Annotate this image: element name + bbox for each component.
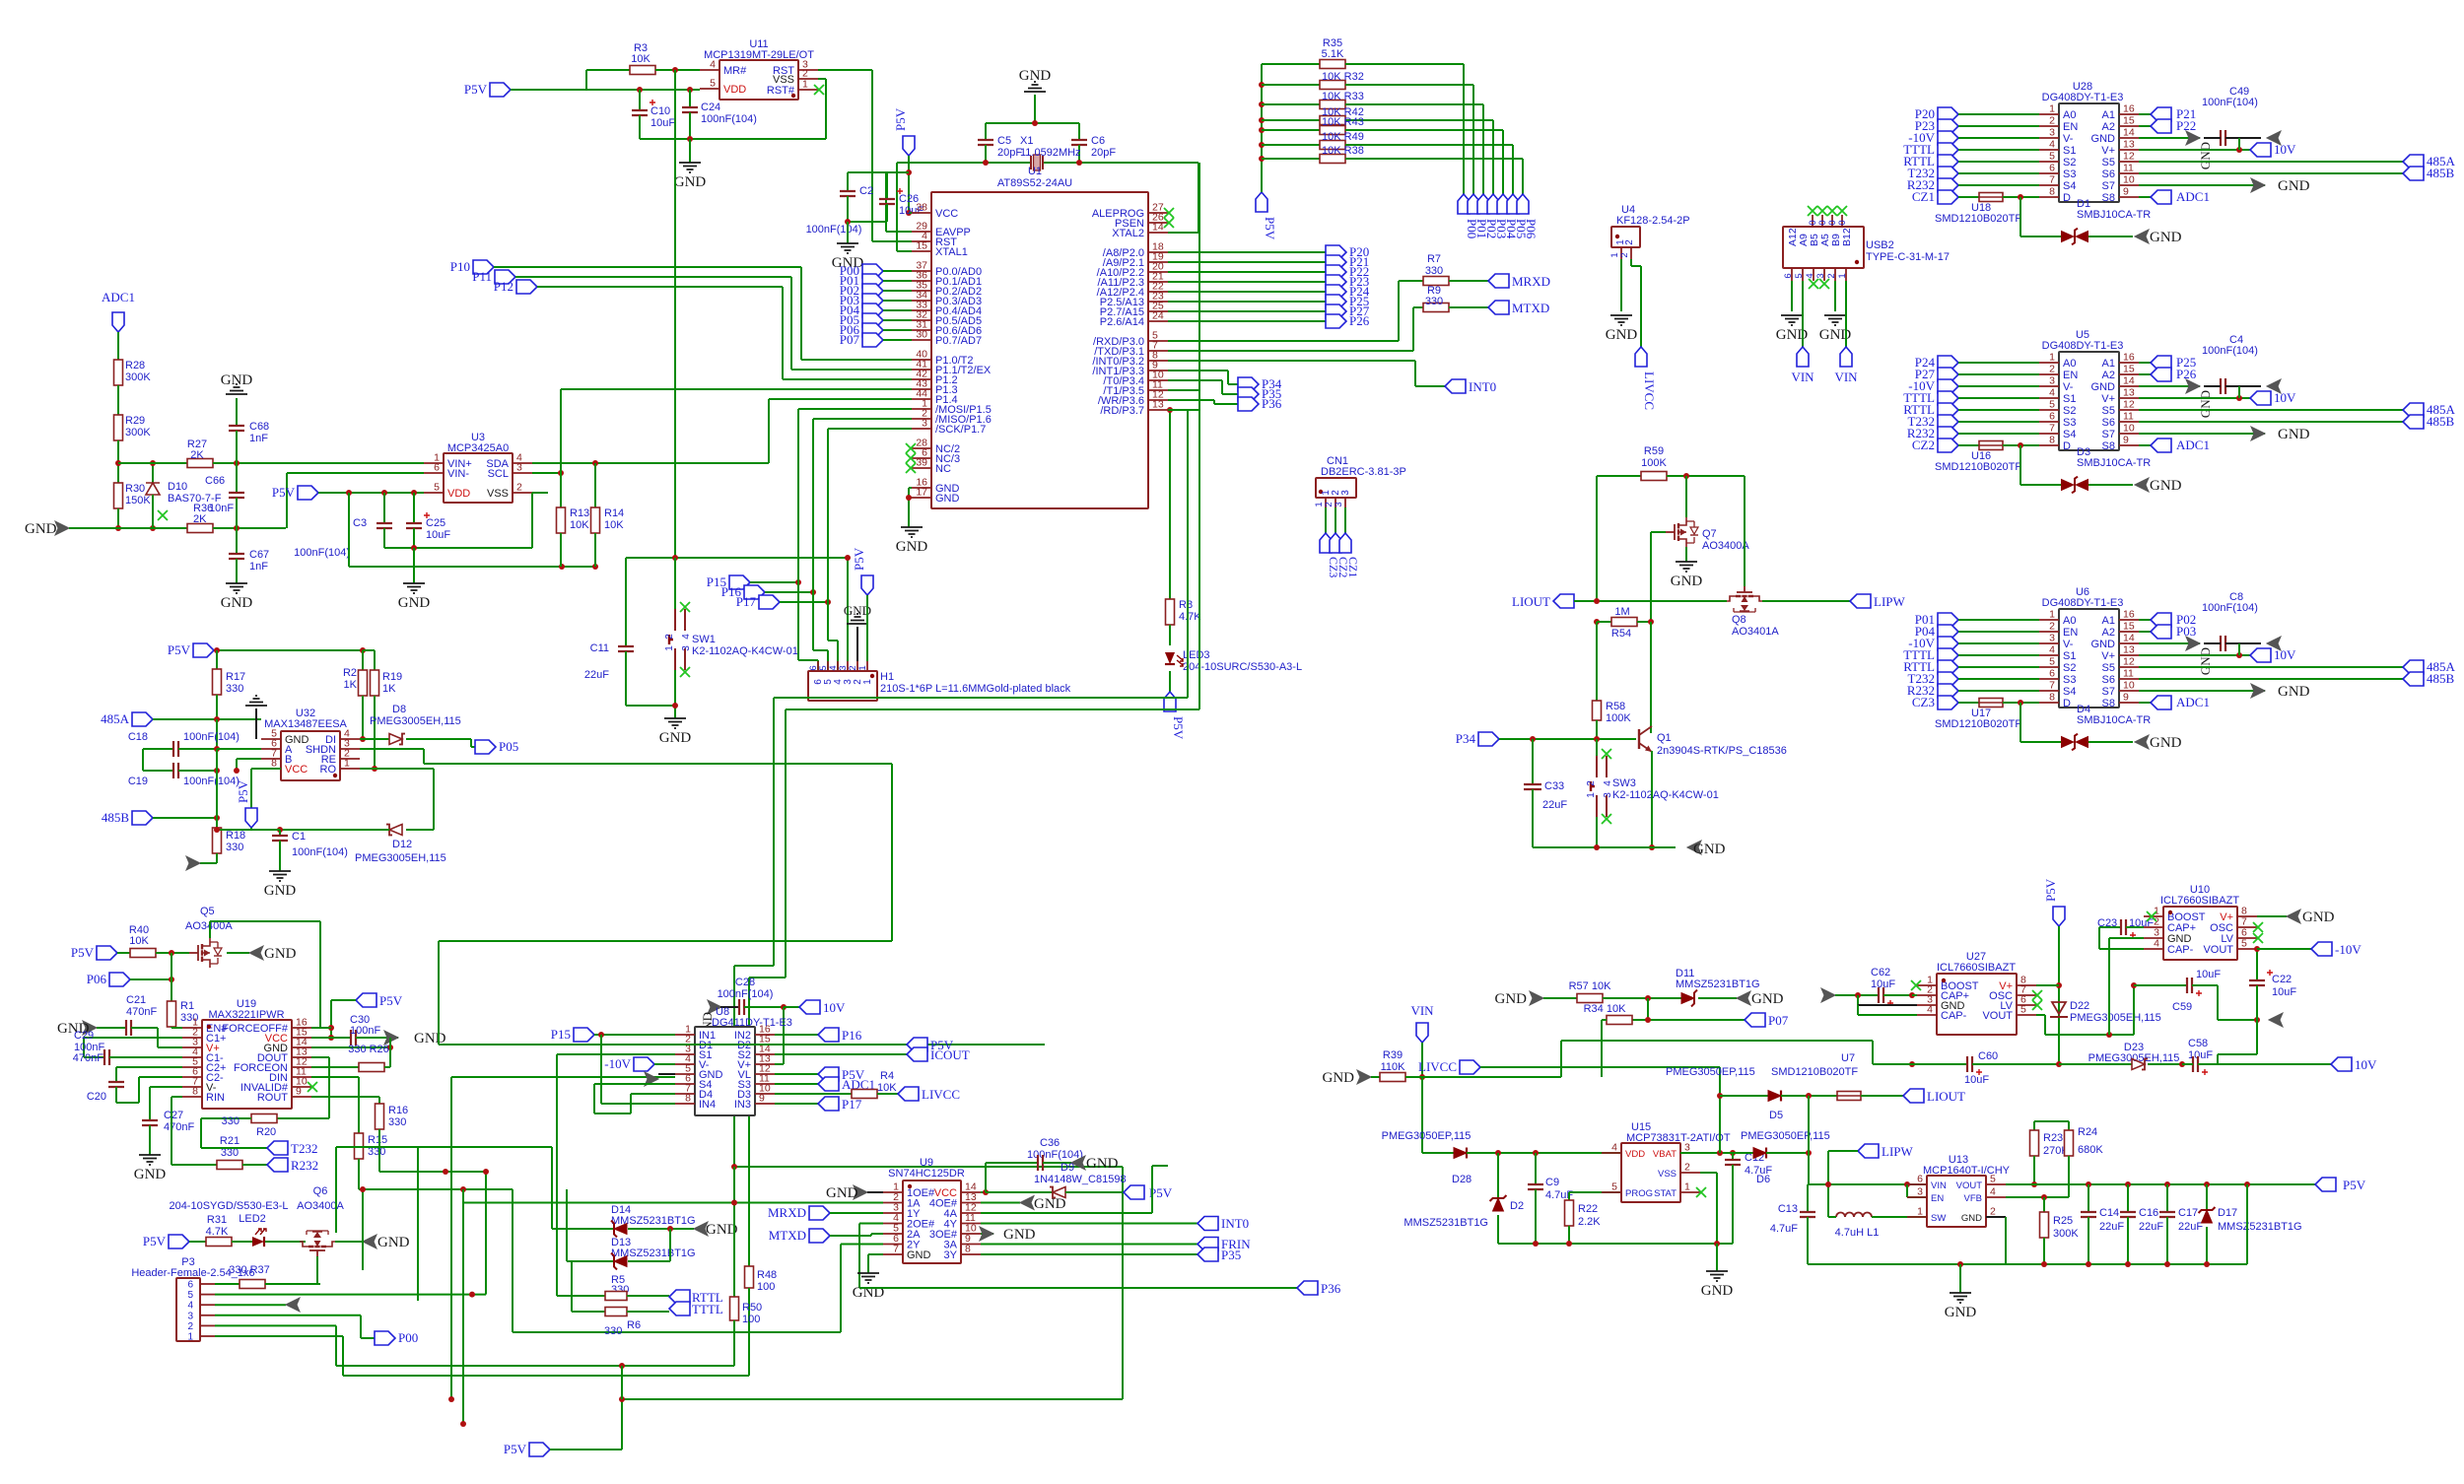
svg-text:S8: S8: [2102, 698, 2115, 709]
resistor R14: [594, 463, 596, 507]
wire trunk DIN row: [359, 1188, 513, 1190]
svg-text:VIN-: VIN-: [447, 468, 469, 480]
resistor R33: [1259, 101, 1265, 107]
svg-text:P5V: P5V: [236, 779, 250, 803]
wire P12 to P1.2: [537, 286, 783, 288]
wire P3 pin5: [215, 1294, 486, 1296]
svg-text:R14: R14: [604, 507, 624, 519]
port P15 left of U8: [574, 1028, 594, 1042]
svg-text:D2: D2: [1510, 1200, 1524, 1212]
wire trunk ROUT row: [379, 1171, 486, 1173]
wire VIN row boost: [1809, 1183, 1927, 1185]
port P16 right of U8: [818, 1028, 839, 1042]
svg-text:5: 5: [2049, 399, 2055, 411]
wire USB2 A12 gnd: [1791, 281, 1793, 311]
svg-text:S2: S2: [2063, 405, 2076, 417]
wire: [883, 309, 912, 311]
diode D3 SMBJ10CA-TR: [2019, 445, 2021, 485]
svg-text:100: 100: [742, 1314, 760, 1325]
resistor R36: [187, 524, 213, 533]
mosfet Q8 AO3401A: [1736, 595, 1753, 597]
buffer U9 SN74HC125DR: [903, 1180, 961, 1263]
pin 30 P0.7/AD7 of U1: [912, 339, 931, 341]
svg-text:3: 3: [681, 645, 692, 651]
svg-text:SW1: SW1: [692, 634, 716, 645]
svg-text:2: 2: [664, 634, 675, 640]
svg-text:C24: C24: [701, 101, 720, 113]
svg-text:C58: C58: [2188, 1038, 2208, 1049]
svg-text:4: 4: [681, 634, 692, 640]
wire DIN to R15: [311, 1076, 359, 1078]
wire 2A from MTXD: [809, 1229, 830, 1243]
ground GND below U13: [1959, 1264, 1961, 1293]
svg-text:1K: 1K: [344, 679, 358, 691]
port -10V left of U8: [634, 1057, 654, 1071]
pin 12 VL of U8: [755, 1073, 775, 1075]
pin 15 XTAL1 of U1: [912, 250, 931, 252]
pin 7 S4 of U5: [2039, 433, 2059, 435]
port P25: [1326, 295, 1346, 308]
transistor Q1 2n3904S-RTK/PS_C18536: [1638, 729, 1640, 749]
wire P2 bus P26: [1168, 320, 1326, 322]
svg-text:V-: V-: [2063, 381, 2074, 393]
svg-text:2K: 2K: [190, 449, 204, 461]
wire VSS loop: [532, 492, 548, 494]
pin 3 V- of U28: [2039, 137, 2059, 139]
wire CN1 pin2: [1335, 507, 1336, 533]
svg-text:GND: GND: [2150, 230, 2182, 245]
net GND sw3: [1687, 841, 1701, 854]
port VIN usb1: [1797, 347, 1809, 367]
wire P1.5 vertical: [798, 408, 912, 410]
svg-text:12: 12: [2123, 151, 2135, 163]
svg-text:VBAT: VBAT: [1653, 1149, 1677, 1160]
svg-text:4: 4: [1990, 1186, 1996, 1198]
svg-text:S3: S3: [2063, 169, 2076, 180]
wire GND pin7: [868, 1253, 883, 1255]
svg-text:8: 8: [965, 1244, 971, 1255]
port P27: [1938, 368, 1958, 381]
net GND right of C30: [390, 1037, 398, 1039]
pin 10 S7 of U28: [2119, 184, 2139, 186]
capacitor C19: [142, 749, 144, 771]
svg-text:U7: U7: [1841, 1052, 1855, 1064]
pin 41 P1.1/T2/EX of U1: [912, 369, 931, 371]
svg-text:Q5: Q5: [200, 906, 215, 917]
pin 6 S3 of U5: [2039, 421, 2059, 423]
svg-text:GND: GND: [2278, 427, 2310, 442]
port P21: [1326, 255, 1346, 269]
wire SDA to P1.4: [532, 462, 769, 464]
svg-text:11: 11: [2123, 163, 2134, 174]
svg-text:ICL7660SIBAZT: ICL7660SIBAZT: [2160, 895, 2239, 907]
port P21: [2139, 113, 2151, 115]
pin 44 P1.4 of U1: [912, 398, 931, 400]
svg-text:485A: 485A: [101, 711, 130, 726]
wire INT0 net: [1168, 360, 1415, 362]
capacitor 100nF mux U5: [2221, 378, 2225, 394]
svg-text:R34 10K: R34 10K: [1584, 1003, 1626, 1015]
resistor R15: [355, 1133, 364, 1159]
svg-text:9: 9: [296, 1086, 302, 1098]
svg-text:8: 8: [685, 1093, 691, 1105]
svg-text:KF128-2.54-2P: KF128-2.54-2P: [1616, 215, 1690, 227]
svg-text:RIN: RIN: [206, 1092, 225, 1104]
svg-text:C20: C20: [87, 1091, 106, 1103]
svg-text:1nF: 1nF: [249, 561, 268, 573]
svg-text:R18: R18: [226, 830, 245, 842]
wire: [1958, 172, 2039, 174]
svg-text:R8: R8: [1179, 599, 1193, 611]
svg-text:2: 2: [2049, 115, 2055, 127]
svg-text:2: 2: [2049, 364, 2055, 375]
svg-text:485B: 485B: [2427, 166, 2455, 180]
pin 31 P0.6/AD6 of U1: [912, 329, 931, 331]
svg-text:5: 5: [2049, 656, 2055, 668]
wire U1 GND pins: [908, 488, 910, 527]
pin 19 /A9/P2.1 of U1: [1148, 261, 1168, 263]
port P16 mid: [744, 585, 765, 599]
svg-text:6: 6: [2049, 163, 2055, 174]
svg-text:GND: GND: [1606, 327, 1638, 343]
wire VSS gnd rail: [640, 138, 826, 140]
pin 39 NC of U1: [912, 467, 931, 469]
capacitor 100nF mux U28: [2221, 130, 2225, 146]
svg-text:LIVCC: LIVCC: [922, 1087, 960, 1102]
svg-text:R7: R7: [1427, 253, 1441, 265]
wire P2 bus P25: [1168, 301, 1326, 303]
svg-text:R15: R15: [368, 1134, 387, 1146]
ground GND above U32: [245, 696, 267, 706]
net GND left of C21: [83, 1021, 97, 1035]
wire RIN to R21: [171, 1096, 182, 1098]
inductor L1 4.7uH: [1836, 1213, 1872, 1218]
resistor R18: [216, 818, 218, 828]
wire P3 pin4 gnd: [215, 1304, 286, 1306]
port P5V above MCU: [903, 136, 915, 156]
wire D14 left: [551, 1147, 553, 1229]
pin 18 /A8/P2.0 of U1: [1148, 251, 1168, 253]
svg-text:1M: 1M: [1614, 606, 1629, 618]
wire C59 to gnd node: [2217, 985, 2219, 1020]
pin 29 EAVPP of U1: [912, 231, 931, 233]
wire P10 to P1.0: [494, 266, 801, 268]
svg-text:R22: R22: [1578, 1203, 1598, 1215]
svg-text:USB2: USB2: [1866, 239, 1894, 251]
svg-text:P26: P26: [1349, 313, 1370, 328]
svg-text:VDD: VDD: [1625, 1149, 1645, 1160]
charge pump U27 ICL7660SIBAZT: [1937, 974, 2017, 1035]
pin 16 A1 of U5: [2119, 362, 2139, 364]
svg-text:100nF(104): 100nF(104): [2202, 602, 2258, 614]
ground GND below SW1: [664, 718, 686, 728]
wire GND rail lower: [118, 527, 187, 529]
diode D6 PMEG3050EP,115: [1680, 1152, 1753, 1154]
port 10V right: [2331, 1057, 2352, 1071]
pin 7 D4 of U8: [675, 1093, 695, 1095]
svg-text:10uF: 10uF: [2196, 969, 2221, 980]
svg-text:R232: R232: [291, 1158, 318, 1173]
wire ladder vertical: [1261, 64, 1263, 192]
pin 43 P1.3 of U1: [912, 388, 931, 390]
ground GND below U1: [901, 527, 923, 537]
svg-text:MCP73831T-2ATI/OT: MCP73831T-2ATI/OT: [1626, 1132, 1731, 1144]
svg-text:17: 17: [916, 487, 927, 499]
port P02: [862, 284, 883, 298]
pin 1 A0 of U5: [2039, 362, 2059, 364]
pin 1 A0 of U28: [2039, 113, 2059, 115]
wire P2 bus P20: [1168, 251, 1326, 253]
svg-text:P05: P05: [499, 739, 518, 754]
ground GND below C25: [413, 548, 415, 583]
pin 10 /T0/P3.4 of U1: [1148, 379, 1168, 381]
port RTTL: [1938, 155, 1958, 169]
svg-text:A1: A1: [2102, 358, 2115, 370]
port CZ2: [1938, 438, 1958, 452]
svg-text:Q7: Q7: [1702, 528, 1717, 540]
pin 15 A2 of U28: [2119, 125, 2139, 127]
svg-text:A2: A2: [2102, 121, 2115, 133]
pin 9 S8 of U6: [2119, 702, 2139, 704]
svg-text:110K: 110K: [1381, 1061, 1406, 1073]
port P01: [862, 274, 883, 288]
svg-text:4: 4: [1805, 273, 1815, 278]
svg-text:100nF(104): 100nF(104): [292, 846, 348, 858]
svg-text:4: 4: [2154, 938, 2159, 950]
svg-text:C25: C25: [426, 517, 445, 529]
port ICOUT: [907, 1047, 927, 1061]
wire ROUT to R16: [311, 1096, 379, 1098]
svg-text:100nF(104): 100nF(104): [718, 988, 774, 1000]
svg-text:P11: P11: [472, 269, 492, 284]
svg-text:4: 4: [2049, 387, 2055, 399]
port P12: [516, 280, 537, 294]
svg-text:4: 4: [187, 1301, 193, 1312]
port 485A mux: [2139, 161, 2403, 163]
port P20: [1326, 245, 1346, 259]
net GND 3OE: [980, 1227, 993, 1241]
port CZ2: [1330, 533, 1341, 553]
wire WR to P36: [1168, 399, 1214, 401]
svg-text:15: 15: [2123, 621, 2135, 633]
svg-text:38: 38: [916, 202, 927, 214]
wire C23 loop: [2098, 927, 2100, 949]
svg-text:VCC: VCC: [285, 764, 308, 776]
svg-text:5: 5: [2049, 151, 2055, 163]
svg-text:A2: A2: [2102, 627, 2115, 639]
led LED2 204-10SYGD/S530-E3-L: [252, 1237, 264, 1247]
port -10V: [1938, 637, 1958, 650]
svg-text:P17: P17: [842, 1097, 862, 1112]
svg-text:A0: A0: [2063, 358, 2076, 370]
svg-text:R4: R4: [880, 1070, 894, 1082]
svg-text:P34: P34: [1456, 731, 1476, 746]
wire R5 left trunk: [556, 1077, 558, 1296]
svg-text:P5V: P5V: [143, 1234, 167, 1248]
svg-text:R16: R16: [388, 1105, 408, 1116]
wire: [117, 440, 119, 483]
svg-text:10K: 10K: [877, 1082, 897, 1094]
svg-text:10uF: 10uF: [2188, 1049, 2213, 1061]
svg-text:8: 8: [2049, 186, 2055, 198]
pin 22 /A12/P2.4 of U1: [1148, 291, 1168, 293]
svg-text:C60: C60: [1978, 1050, 1998, 1062]
svg-text:MCP1640T-I/CHY: MCP1640T-I/CHY: [1923, 1165, 2011, 1177]
wire Q7 gate: [1651, 531, 1666, 533]
svg-text:S8: S8: [2102, 440, 2115, 452]
pin 4 S1 of U28: [2039, 149, 2059, 151]
svg-text:SN74HC125DR: SN74HC125DR: [888, 1168, 965, 1180]
wire SHDN: [360, 748, 424, 750]
port CZ1: [1339, 533, 1351, 553]
svg-text:2: 2: [1990, 1206, 1996, 1218]
svg-text:1: 1: [1684, 1181, 1690, 1193]
svg-text:P16: P16: [842, 1028, 862, 1043]
svg-text:P06: P06: [87, 972, 107, 986]
port LIVCC right of R4: [898, 1087, 919, 1101]
svg-text:10V: 10V: [2274, 390, 2296, 405]
port P03 vertical: [1487, 194, 1499, 214]
wire SW1 to gnd: [674, 670, 676, 718]
svg-text:C29: C29: [74, 1030, 94, 1042]
header H1 210S-1*6P: [808, 671, 877, 701]
svg-text:ICL7660SIBAZT: ICL7660SIBAZT: [1937, 962, 2016, 974]
svg-text:1: 1: [2049, 352, 2055, 364]
capacitor C18: [143, 748, 173, 750]
svg-text:485B: 485B: [2427, 414, 2455, 429]
svg-text:GND: GND: [1323, 1070, 1355, 1086]
resistor R31: [189, 1241, 206, 1243]
svg-text:14: 14: [2123, 375, 2135, 387]
resistor R9: [1413, 306, 1423, 308]
rs232 U19 MAX3221IPWR: [202, 1020, 292, 1109]
port P24: [1938, 356, 1958, 370]
port P02: [2139, 619, 2151, 621]
port 485A mux: [2139, 666, 2403, 668]
svg-text:ADC1: ADC1: [2176, 189, 2210, 204]
svg-text:6: 6: [1917, 1174, 1923, 1185]
wire: [1958, 619, 2039, 621]
net GND below R18: [200, 862, 217, 864]
wire DOUT to R20: [311, 1056, 329, 1058]
pin 2 B9 of USB2: [1834, 268, 1836, 281]
svg-text:16: 16: [2123, 352, 2135, 364]
wire: [1958, 654, 2039, 656]
capacitor C29: [84, 1056, 104, 1058]
svg-text:GND: GND: [264, 883, 297, 899]
svg-text:R30: R30: [125, 483, 145, 495]
svg-text:SMD1210B020TF: SMD1210B020TF: [1935, 461, 2021, 473]
net GND p3 pin4: [286, 1298, 300, 1312]
pin 24 P2.6/A14 of U1: [1148, 320, 1168, 322]
svg-text:R2: R2: [343, 667, 357, 679]
port R232: [1938, 427, 1958, 440]
pin 12 S5 of U28: [2119, 161, 2139, 163]
wire 485A: [153, 718, 261, 720]
pin 9 S8 of U5: [2119, 444, 2139, 446]
svg-text:2: 2: [516, 482, 522, 494]
svg-text:GND: GND: [25, 521, 57, 537]
svg-text:LED2: LED2: [239, 1213, 266, 1225]
port 10V near U8: [799, 1000, 820, 1014]
ground GND below C24: [689, 139, 691, 163]
capacitor C13: [1807, 1184, 1809, 1212]
port P00: [862, 264, 883, 278]
svg-text:PMEG3005EH,115: PMEG3005EH,115: [355, 852, 446, 864]
svg-text:P00: P00: [398, 1330, 418, 1345]
svg-text:P5V: P5V: [893, 107, 908, 131]
resistor R6: [572, 1311, 605, 1313]
pin 9 3A of U9: [961, 1244, 981, 1246]
svg-text:GND: GND: [674, 174, 707, 190]
svg-text:10: 10: [2123, 423, 2135, 435]
svg-text:AT89S52-24AU: AT89S52-24AU: [997, 177, 1072, 189]
wire: [1958, 409, 2039, 411]
wire 3A to FRIN: [981, 1244, 1198, 1246]
svg-text:22uF: 22uF: [2139, 1221, 2163, 1233]
port P06: [109, 973, 130, 986]
svg-text:VOUT: VOUT: [1982, 1010, 2013, 1022]
svg-text:PROG: PROG: [1625, 1188, 1653, 1199]
svg-text:13: 13: [2123, 387, 2135, 399]
svg-text:6: 6: [2049, 411, 2055, 423]
fuse U17 SMD1210B020TF: [1958, 702, 1979, 704]
port P05: [862, 313, 883, 327]
svg-text:10uF: 10uF: [426, 529, 450, 541]
capacitor C10: [639, 90, 641, 110]
ground GND below C67: [226, 583, 247, 593]
svg-text:S2: S2: [2063, 662, 2076, 674]
port P03: [2139, 631, 2151, 633]
wire P1.7 vertical: [828, 428, 912, 430]
svg-text:9: 9: [2123, 186, 2129, 198]
port LIPW mid: [1858, 1144, 1879, 1158]
svg-text:DG411DY-T1-E3: DG411DY-T1-E3: [712, 1017, 792, 1029]
wire Q8 to LIPW: [1762, 600, 1850, 602]
port TTTL: [1938, 143, 1958, 157]
svg-text:22uF: 22uF: [2178, 1221, 2203, 1233]
svg-text:S4: S4: [2063, 429, 2076, 440]
resistor R28: [114, 360, 123, 385]
svg-text:9: 9: [759, 1093, 765, 1105]
svg-text:R58: R58: [1606, 701, 1625, 712]
port 485B mux: [2139, 421, 2403, 423]
svg-text:1N4148W_C81598: 1N4148W_C81598: [1034, 1174, 1127, 1185]
svg-text:9: 9: [2123, 692, 2129, 704]
resistor R8: [1166, 599, 1175, 625]
diode D8 PMEG3005EH,115: [360, 738, 389, 740]
pin 10 D3 of U8: [755, 1093, 775, 1095]
svg-text:2: 2: [187, 1321, 193, 1332]
svg-text:300K: 300K: [2053, 1228, 2079, 1240]
svg-text:P36: P36: [1262, 396, 1282, 411]
port P17 mid: [759, 595, 780, 609]
svg-text:GND: GND: [907, 1249, 931, 1261]
ground GND below U4: [1610, 315, 1632, 325]
svg-text:R54: R54: [1611, 628, 1631, 640]
svg-text:GND: GND: [2091, 381, 2116, 393]
wire P3 pin1: [215, 1335, 343, 1337]
svg-text:2: 2: [1624, 239, 1635, 245]
ground GND below Q7: [1685, 547, 1687, 562]
pin 16 GND of U1: [912, 487, 931, 489]
wire VFB row: [2006, 1196, 2069, 1198]
junction P5V C10: [637, 87, 643, 93]
resistor R7: [1399, 280, 1423, 282]
pin 32 P0.5/AD5 of U1: [912, 319, 931, 321]
pin 35 P0.2/AD2 of U1: [912, 290, 931, 292]
svg-text:330: 330: [388, 1116, 406, 1128]
